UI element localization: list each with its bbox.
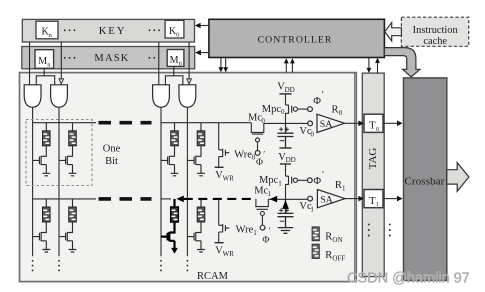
- wire Kn to gate G1: [29, 42, 31, 85]
- transistor M21: [33, 222, 47, 249]
- wire T0 to crossbar with arrowhead: [383, 121, 403, 127]
- legend label R_ON: [325, 232, 342, 244]
- svg-text:1: 1: [376, 201, 379, 208]
- KEY dots right: [149, 29, 160, 31]
- current path arrow down below M23: [171, 248, 178, 254]
- svg-text:KEY: KEY: [99, 25, 127, 37]
- tag cell T0: [364, 114, 383, 133]
- svg-text:R: R: [335, 180, 342, 191]
- label R1: [335, 180, 346, 192]
- svg-text:ON: ON: [332, 236, 342, 244]
- label phi-prime row0 upper: [313, 91, 324, 108]
- svg-text:DD: DD: [285, 86, 295, 94]
- TAG column bar: [362, 73, 384, 277]
- transistor M12: [59, 146, 73, 173]
- ground of cell R21: [42, 250, 50, 253]
- current path arrow up from C1: [282, 200, 289, 209]
- C0 minus mark: [280, 140, 285, 142]
- bit line 4: [186, 107, 188, 256]
- label Mpc1: [259, 175, 282, 187]
- node circle Vc1: [308, 196, 313, 201]
- svg-text:′: ′: [263, 150, 265, 160]
- legend resistor R_OFF symbol: [312, 244, 319, 258]
- match line ML1 break dashes: [99, 197, 152, 201]
- wire K0-bar to gate G4 with open arrowhead: [187, 42, 191, 84]
- terminal circle Wre0/phi: [255, 151, 260, 156]
- Mpc0 gate bubble: [293, 107, 297, 111]
- Mc0 gate bubble: [256, 138, 260, 142]
- svg-text:Wre: Wre: [234, 149, 252, 160]
- svg-text:Bit: Bit: [105, 156, 118, 167]
- match line ML1 solid mid: [161, 198, 171, 200]
- svg-text:CONTROLLER: CONTROLLER: [258, 34, 333, 45]
- memristor R22: [69, 207, 77, 222]
- wire Kn-bar to gate G2 with open arrowhead: [59, 42, 63, 84]
- transistor Mc1 (pass gate on match line): [256, 199, 268, 209]
- MASK dots left: [64, 57, 75, 59]
- svg-text:0: 0: [339, 109, 343, 117]
- ground of cell R22: [69, 250, 77, 253]
- RCAM array box: [20, 73, 357, 282]
- gate G3: [153, 85, 170, 107]
- label VWR row1: [215, 245, 234, 257]
- TAG column ellipsis: [368, 224, 370, 237]
- svg-text:R: R: [332, 105, 339, 116]
- match line ML0 solid right: [161, 122, 251, 124]
- svg-text:1: 1: [342, 184, 346, 192]
- label phi-prime row1 upper: [313, 171, 324, 188]
- VDD terminal bar row1: [280, 163, 291, 165]
- transistor M13: [161, 146, 175, 173]
- svg-text:MASK: MASK: [94, 53, 129, 64]
- memristor R13: [171, 131, 179, 146]
- bus arrows controller to RCAM (down pair): [219, 58, 229, 73]
- MASK register bar: [22, 47, 195, 69]
- register cell M0: [167, 50, 184, 68]
- wire Mpc0 bubble to phi terminal: [298, 108, 308, 110]
- svg-text:CSDN @hamlin 97: CSDN @hamlin 97: [347, 271, 470, 287]
- svg-text:SA: SA: [320, 194, 333, 205]
- svg-text:Wre: Wre: [236, 225, 254, 236]
- svg-text:Φ: Φ: [313, 96, 321, 107]
- ground of cell R12: [69, 173, 77, 176]
- svg-text:0: 0: [179, 61, 182, 68]
- match line ML0 solid left: [33, 122, 96, 124]
- ellipsis between TAG and crossbar: [389, 224, 391, 237]
- svg-text:1: 1: [253, 229, 257, 237]
- instruction cache: [401, 17, 468, 46]
- svg-text:′: ′: [322, 171, 324, 181]
- svg-text:RCAM: RCAM: [197, 271, 229, 282]
- current path arrow out of Mc1 (left): [270, 196, 277, 203]
- inverted VDD terminal bar (C0 bottom): [279, 147, 291, 149]
- register cell Kn: [36, 21, 58, 39]
- svg-text:R: R: [325, 232, 332, 243]
- capacitor C1: [278, 199, 294, 227]
- label Mc0: [248, 112, 265, 124]
- terminal bar VWR row1: [215, 242, 224, 244]
- svg-text:Mc: Mc: [254, 186, 268, 197]
- svg-text:Crossbar: Crossbar: [405, 176, 445, 188]
- wire Mn split to gates G1 G2: [36, 68, 54, 85]
- wire stub match-line to resistor R14: [200, 123, 202, 131]
- svg-text:Φ: Φ: [262, 236, 269, 246]
- label Mc1: [254, 186, 271, 198]
- wire SA1 to T1 with arrowhead: [345, 196, 364, 202]
- svg-text:Φ: Φ: [256, 158, 263, 168]
- transistor M11: [33, 146, 47, 173]
- wire T1 to crossbar with arrowhead: [383, 196, 403, 202]
- wire stub match-line to resistor R11: [45, 123, 47, 131]
- ground of cell R24: [197, 250, 205, 253]
- wire stub match-line to resistor R13: [174, 123, 176, 131]
- svg-text:1: 1: [268, 190, 272, 198]
- wire Mc1 gate to phi terminal: [261, 216, 263, 226]
- svg-text:Φ: Φ: [313, 176, 321, 187]
- wire stub match-line to resistor R24: [200, 199, 202, 207]
- terminal circle Wre1/phi: [260, 225, 265, 230]
- Mc1 gate bubble: [260, 212, 264, 216]
- tag cell T1: [364, 190, 383, 209]
- svg-text:cache: cache: [423, 36, 447, 47]
- match line ML1 wire Mc1 to node: [268, 198, 307, 200]
- wire stub match-line to resistor R22: [72, 199, 74, 207]
- bit line 1 ellipsis: [32, 260, 34, 272]
- svg-text:1: 1: [310, 206, 314, 214]
- memristor R11: [43, 131, 51, 146]
- wire K0 to gate G3: [158, 42, 160, 85]
- KEY dots left: [64, 29, 75, 31]
- arrow TAG to controller (up): [375, 58, 380, 73]
- gate G2: [51, 85, 68, 107]
- svg-text:R: R: [325, 250, 332, 261]
- current path arrow into cell R23 (left): [176, 196, 183, 203]
- ground of cell R11: [42, 173, 50, 176]
- svg-text:Mc: Mc: [248, 112, 262, 123]
- memristor R12: [69, 131, 77, 146]
- label VDD shared (C0 bottom / Mpc1 top): [278, 152, 295, 164]
- MASK dots right: [149, 57, 156, 59]
- label VDD row0 top: [277, 82, 294, 94]
- ground of C1: [278, 228, 293, 234]
- transistor M22: [59, 222, 73, 249]
- svg-text:Mpc: Mpc: [259, 175, 279, 186]
- label phi-prime row1 lower: [262, 226, 270, 246]
- wire M0 split to gates G3 G4: [165, 66, 183, 84]
- wire stub match-line to resistor R21: [45, 199, 47, 207]
- memristor R24: [197, 207, 205, 222]
- svg-text:0: 0: [376, 126, 379, 133]
- gate G1: [24, 85, 41, 107]
- bit line 2 ellipsis: [58, 260, 60, 272]
- memristor R23: [171, 207, 179, 222]
- node circle Vc0: [308, 121, 313, 126]
- sense amplifier SA1: [317, 190, 345, 208]
- svg-text:0: 0: [310, 130, 314, 138]
- wire controller to KEY: [195, 23, 209, 29]
- match line ML0 wire Mc0 to node: [264, 122, 308, 124]
- transistor Mpc1 precharge: [286, 164, 292, 199]
- bit line 3 ellipsis: [160, 260, 162, 272]
- svg-text:Instruction: Instruction: [413, 25, 459, 36]
- wire stub match-line to resistor R12: [72, 123, 74, 131]
- register cell Mn: [35, 50, 54, 69]
- svg-text:OFF: OFF: [332, 254, 345, 262]
- legend label R_OFF: [325, 250, 345, 262]
- svg-text:1: 1: [278, 179, 282, 187]
- transistor M23: [161, 222, 175, 249]
- svg-text:WR: WR: [223, 250, 235, 258]
- ground of cell R13: [171, 173, 179, 176]
- capacitor C0: [278, 123, 294, 147]
- svg-text:0: 0: [176, 32, 179, 39]
- match line ML1 highlighted dashed segment: [184, 198, 254, 200]
- memristor R14: [197, 131, 205, 146]
- wire SA0 to T0 with arrowhead: [345, 121, 365, 127]
- terminal circle phi row1: [307, 178, 312, 183]
- svg-text:Mpc: Mpc: [262, 104, 282, 115]
- memristor R21: [43, 207, 51, 222]
- svg-text:′: ′: [269, 226, 271, 236]
- svg-text:SA: SA: [320, 119, 333, 130]
- write transistor Wre0: [219, 123, 230, 167]
- terminal bar VWR row0: [215, 166, 224, 168]
- match line ML0 break dashes: [99, 121, 152, 125]
- wire controller to MASK: [195, 50, 209, 56]
- terminal circle phi row0: [308, 107, 313, 112]
- svg-text:0: 0: [281, 108, 285, 116]
- transistor M24: [187, 222, 201, 249]
- one-bit cell dashed box: [26, 120, 92, 186]
- sense amplifier SA0: [317, 114, 345, 132]
- svg-text:M: M: [38, 56, 47, 67]
- label Mpc0: [262, 104, 285, 116]
- hollow arrow cache to controller: [385, 23, 402, 42]
- transistor M14: [187, 146, 201, 173]
- bit line 2: [58, 107, 60, 256]
- C0 plus marks: [279, 127, 289, 131]
- label Wre0: [234, 149, 256, 161]
- svg-text:DD: DD: [286, 156, 296, 164]
- bent bus arrow controller to crossbar: [384, 48, 420, 77]
- svg-text:TAG: TAG: [367, 148, 379, 170]
- C1 plus marks: [279, 208, 289, 212]
- bit line 4 ellipsis: [186, 260, 188, 272]
- label VWR row0: [215, 170, 234, 182]
- bit line 1: [32, 107, 34, 256]
- crossbar block: [404, 78, 447, 281]
- svg-text:′: ′: [322, 91, 324, 101]
- label Vc1: [299, 201, 314, 213]
- label Vc0: [299, 126, 314, 138]
- C1 minus mark: [280, 220, 285, 222]
- wire stub match-line to resistor R23: [173, 199, 175, 207]
- gate G4: [179, 85, 196, 107]
- wire Mpc1 bubble to phi terminal: [298, 179, 308, 181]
- legend resistor R_ON symbol: [312, 227, 319, 241]
- wire Mc0 gate to phi terminal: [257, 142, 259, 151]
- register cell K0: [165, 20, 184, 38]
- crossbar output hollow arrow: [447, 163, 469, 192]
- VDD terminal bar row0: [279, 93, 291, 95]
- write transistor Wre1: [219, 199, 230, 242]
- svg-text:One: One: [103, 143, 121, 154]
- svg-text:M: M: [170, 55, 179, 66]
- RCAM right inner border line: [354, 73, 356, 281]
- bus arrows RCAM to controller (up pair): [284, 58, 295, 72]
- transistor Mc0 (pass gate on match line): [251, 123, 263, 134]
- controller: [209, 19, 385, 57]
- match line ML1 solid left: [33, 198, 96, 200]
- label R0: [332, 105, 343, 117]
- svg-text:WR: WR: [223, 174, 235, 182]
- label Wre1: [236, 225, 258, 237]
- bit line 3: [160, 107, 162, 256]
- KEY register bar: [22, 19, 194, 42]
- transistor Mpc0 precharge: [286, 94, 292, 124]
- label phi-prime row0 lower: [256, 150, 265, 168]
- Mpc1 gate bubble: [293, 178, 297, 182]
- arrow controller to TAG (down): [367, 58, 372, 74]
- ground of cell R14: [197, 173, 205, 176]
